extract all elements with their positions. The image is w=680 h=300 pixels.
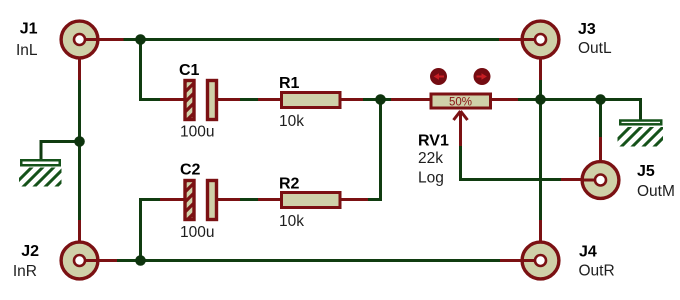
svg-text:OutR: OutR	[579, 263, 615, 280]
capacitor C1 pins	[160, 98, 240, 101]
potentiometer RV1 decrement button	[430, 68, 447, 85]
capacitor C2 pins	[160, 198, 240, 201]
potentiometer RV1 pins	[391, 98, 518, 101]
wire J3 barrel drop	[539, 78, 542, 100]
wire left rail J1 to J2	[78, 79, 81, 222]
node junction J3 barrel	[535, 94, 546, 105]
connector J1	[61, 21, 98, 58]
svg-text:Log: Log	[418, 170, 444, 187]
label J5	[637, 163, 655, 180]
resistor R2	[282, 193, 341, 208]
node junction R1 output	[375, 94, 386, 105]
svg-text:22k: 22k	[418, 150, 443, 167]
connector J1 pins	[80, 40, 124, 81]
wire junction drop to C1 row	[141, 41, 163, 100]
label 22k	[418, 150, 443, 167]
connector J5	[582, 162, 619, 199]
wire J5 barrel riser	[599, 100, 602, 139]
svg-text:R1: R1	[279, 75, 300, 92]
wire RV1 to ground row	[517, 98, 602, 101]
wire ground branch left	[41, 142, 80, 161]
svg-text:RV1: RV1	[418, 133, 449, 150]
svg-text:100u: 100u	[180, 124, 214, 141]
svg-text:OutM: OutM	[637, 183, 675, 200]
label RV1	[418, 133, 449, 150]
capacitor C1	[178, 65, 217, 139]
connector J2 pins	[80, 220, 118, 261]
svg-text:InL: InL	[16, 42, 38, 59]
label J3	[578, 21, 596, 38]
wire R1 to RV1	[362, 98, 392, 101]
svg-text:J4: J4	[579, 244, 597, 261]
label OutR	[579, 263, 615, 280]
wire C2 riser from bottom row	[139, 198, 142, 262]
label J2	[21, 243, 39, 260]
svg-text:J3: J3	[578, 21, 596, 38]
capacitor C2	[178, 165, 217, 239]
resistor R2 pins	[258, 198, 368, 201]
wire J3 row to J4 rail	[539, 100, 542, 222]
svg-text:J2: J2	[21, 243, 39, 260]
node junction ground left	[74, 136, 85, 147]
label OutM	[637, 183, 675, 200]
svg-text:R2: R2	[279, 176, 300, 193]
wire ground stub right	[601, 100, 641, 121]
wire wiper to J5	[461, 144, 563, 180]
svg-text:C2: C2	[180, 162, 201, 179]
potentiometer RV1 body	[431, 94, 491, 108]
node junction bottom left	[135, 255, 146, 266]
label R1	[279, 75, 300, 92]
svg-text:10k: 10k	[279, 213, 304, 230]
ground right	[604, 117, 680, 153]
label C2	[180, 162, 201, 179]
node junction J5 barrel	[595, 94, 606, 105]
node junction top left	[135, 34, 146, 45]
svg-text:10k: 10k	[279, 113, 304, 130]
wire bottom row J2 to J4	[116, 259, 501, 262]
label 100u C2	[180, 224, 214, 241]
connector J3	[522, 21, 559, 58]
svg-text:100u: 100u	[180, 224, 214, 241]
svg-text:C1: C1	[179, 62, 200, 79]
label 10k R1	[279, 113, 304, 130]
label 100u C1	[180, 124, 214, 141]
wire C2 row	[141, 198, 163, 201]
ground left	[6, 157, 86, 193]
potentiometer RV1 wiper arrow	[454, 111, 468, 146]
label OutL	[578, 40, 612, 57]
label 10k R2	[279, 213, 304, 230]
connector J3 pins	[499, 40, 541, 81]
wire R2 output riser	[363, 98, 381, 200]
svg-text:InR: InR	[13, 263, 37, 280]
connector J2	[61, 242, 98, 279]
svg-text:J1: J1	[20, 21, 38, 38]
wire C1 to R1	[239, 98, 259, 101]
label R2	[279, 176, 300, 193]
label 50%	[449, 97, 472, 109]
label InL	[16, 42, 38, 59]
potentiometer RV1 increment button	[474, 68, 491, 85]
connector J4 pins	[500, 220, 541, 261]
svg-text:OutL: OutL	[578, 40, 612, 57]
label J4	[579, 244, 597, 261]
wire C2 to R2	[239, 198, 259, 201]
svg-text:50%: 50%	[449, 97, 472, 109]
resistor R1 pins	[258, 98, 363, 101]
resistor R1	[282, 93, 341, 108]
svg-text:J5: J5	[637, 163, 655, 180]
connector J4	[522, 242, 559, 279]
label Log	[418, 170, 444, 187]
label C1	[179, 62, 200, 79]
connector J5 pins	[561, 137, 601, 180]
wire top row J1 to J3	[121, 38, 499, 41]
label J1	[20, 21, 38, 38]
label InR	[13, 263, 37, 280]
